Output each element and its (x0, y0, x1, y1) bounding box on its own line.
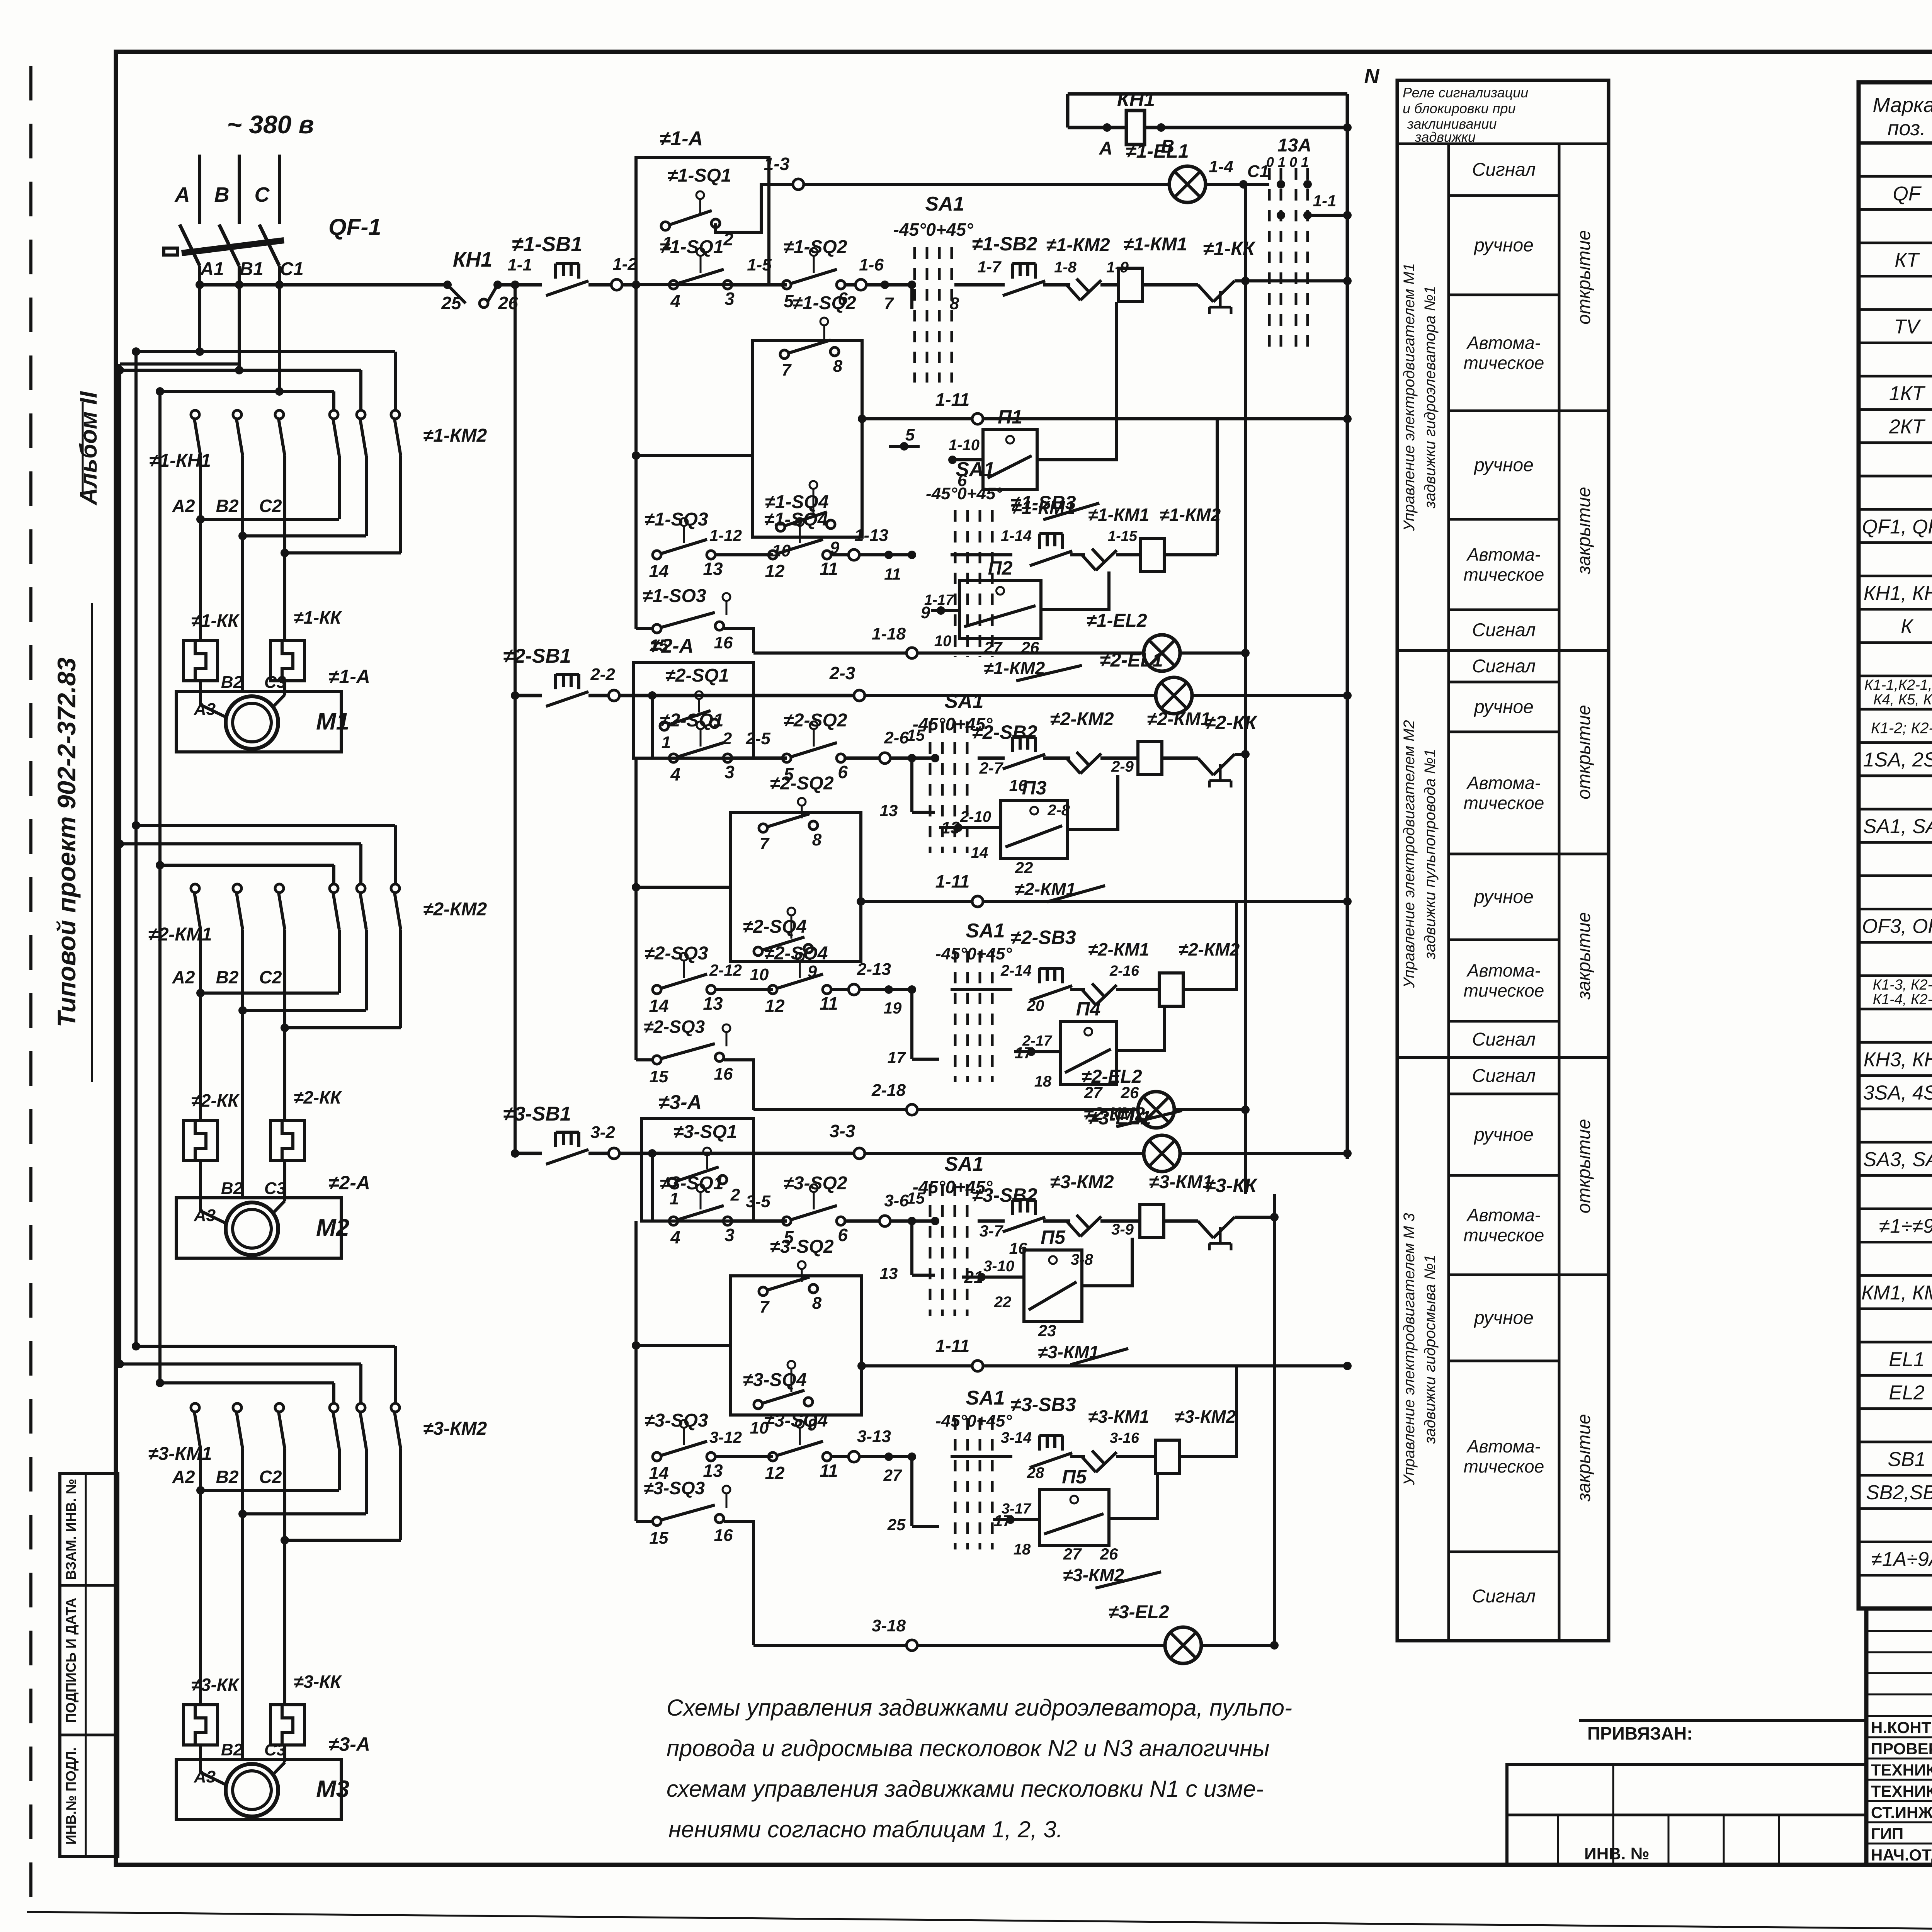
svg-text:10: 10 (750, 965, 769, 984)
svg-text:К: К (1901, 616, 1914, 638)
svg-text:ГИП: ГИП (1871, 1825, 1903, 1843)
svg-text:8: 8 (950, 294, 959, 313)
svg-text:≠2-SQ4: ≠2-SQ4 (764, 943, 828, 964)
svg-text:2-10: 2-10 (960, 808, 991, 825)
svg-text:Сигнал: Сигнал (1472, 160, 1536, 180)
svg-text:-45°0+45°: -45°0+45° (935, 1412, 1012, 1430)
svg-text:ОF3, ОF4: ОF3, ОF4 (1862, 915, 1932, 938)
svg-text:М1: М1 (316, 708, 349, 735)
svg-text:1-4: 1-4 (1209, 157, 1233, 176)
svg-text:≠1-SQ1: ≠1-SQ1 (667, 165, 731, 186)
svg-text:≠2-SQ3: ≠2-SQ3 (644, 1017, 705, 1037)
svg-text:≠3-SQ1: ≠3-SQ1 (660, 1173, 723, 1194)
svg-text:≠1-КК: ≠1-КК (1203, 238, 1256, 259)
svg-text:SВ1: SВ1 (1888, 1448, 1925, 1471)
svg-text:А1: А1 (200, 259, 224, 279)
svg-text:ПОДПИСЬ И ДАТА: ПОДПИСЬ И ДАТА (63, 1598, 79, 1723)
svg-text:8: 8 (833, 357, 843, 376)
svg-text:27: 27 (883, 1466, 902, 1484)
svg-text:П2: П2 (988, 557, 1013, 579)
svg-text:≠2-SQ2: ≠2-SQ2 (770, 773, 833, 794)
svg-text:К1-3, К2-3: К1-3, К2-3 (1873, 977, 1932, 993)
svg-text:ЕL1: ЕL1 (1889, 1348, 1925, 1371)
svg-text:≠3-КМ2: ≠3-КМ2 (1175, 1406, 1236, 1427)
svg-text:1-7: 1-7 (978, 258, 1002, 276)
svg-text:ПРИВЯЗАН:: ПРИВЯЗАН: (1587, 1723, 1693, 1743)
svg-text:ЕL2: ЕL2 (1889, 1381, 1925, 1404)
svg-text:Управление электродвигателем: Управление электродвигателем М 3 (1401, 1213, 1418, 1485)
svg-text:22: 22 (994, 1294, 1012, 1311)
svg-text:3-14: 3-14 (1001, 1429, 1032, 1446)
svg-text:В2: В2 (221, 1740, 243, 1759)
svg-text:задвижки гидроэлеватора: задвижки гидроэлеватора №1 (1422, 286, 1439, 509)
svg-text:Сигнал: Сигнал (1472, 1029, 1536, 1050)
svg-text:≠1-SB1: ≠1-SB1 (512, 233, 583, 256)
svg-text:П1: П1 (998, 406, 1022, 428)
svg-text:≠2-КМ1: ≠2-КМ1 (148, 924, 212, 945)
svg-text:12: 12 (765, 996, 785, 1016)
svg-text:П3: П3 (1022, 777, 1047, 799)
svg-text:3-16: 3-16 (1110, 1430, 1139, 1446)
svg-text:С: С (255, 183, 270, 206)
svg-text:SА1: SА1 (956, 458, 995, 481)
svg-text:≠2-КК: ≠2-КК (1205, 712, 1258, 733)
svg-text:М2: М2 (316, 1214, 349, 1241)
svg-text:16: 16 (714, 633, 733, 652)
svg-text:С3: С3 (264, 1740, 286, 1759)
svg-text:≠2-SQ1: ≠2-SQ1 (665, 665, 729, 686)
svg-text:10: 10 (934, 633, 952, 650)
svg-text:7: 7 (884, 294, 895, 313)
svg-text:СТ.ИНЖ.: СТ.ИНЖ. (1871, 1803, 1932, 1821)
svg-text:А3: А3 (194, 1206, 216, 1225)
svg-text:≠1-КК: ≠1-КК (191, 611, 240, 631)
svg-text:открытие: открытие (1574, 230, 1594, 325)
svg-text:ручное: ручное (1473, 235, 1534, 256)
svg-text:Сигнал: Сигнал (1472, 620, 1536, 641)
svg-text:В1: В1 (240, 259, 263, 279)
svg-text:открытие: открытие (1574, 1119, 1594, 1214)
svg-text:1-14: 1-14 (1001, 527, 1032, 544)
svg-text:QF1, QF2: QF1, QF2 (1862, 515, 1932, 538)
svg-text:М3: М3 (316, 1776, 349, 1803)
svg-text:С2: С2 (259, 1467, 282, 1487)
svg-text:26: 26 (1100, 1545, 1118, 1563)
svg-text:1-3: 1-3 (764, 154, 790, 174)
svg-text:11: 11 (820, 559, 838, 579)
svg-text:2-3: 2-3 (829, 663, 855, 683)
svg-text:SА1: SА1 (966, 1387, 1005, 1409)
svg-text:3-5: 3-5 (746, 1192, 770, 1211)
svg-text:2-12: 2-12 (709, 961, 742, 979)
svg-text:Автома-: Автома- (1466, 1205, 1541, 1225)
svg-text:1-2: 1-2 (612, 255, 637, 274)
svg-text:В: В (214, 183, 230, 206)
svg-text:18: 18 (1034, 1073, 1052, 1090)
svg-text:≠3-КМ2: ≠3-КМ2 (1050, 1172, 1114, 1192)
svg-text:≠2-КК: ≠2-КК (294, 1087, 342, 1107)
svg-text:КТ: КТ (1895, 249, 1920, 272)
svg-text:27: 27 (1063, 1545, 1082, 1563)
svg-text:А3: А3 (194, 1767, 216, 1786)
svg-text:≠2-КМ1: ≠2-КМ1 (1088, 939, 1149, 959)
svg-text:≠3-SQ1: ≠3-SQ1 (673, 1122, 737, 1142)
svg-text:2-13: 2-13 (857, 960, 891, 979)
svg-text:В2: В2 (216, 1467, 239, 1487)
svg-text:N: N (1364, 65, 1380, 88)
svg-text:SА1: SА1 (925, 193, 964, 215)
svg-text:П4: П4 (1076, 998, 1101, 1020)
svg-text:схемам управления задвижка: схемам управления задвижками песколовки … (667, 1776, 1264, 1802)
svg-text:4: 4 (670, 1227, 680, 1247)
svg-text:закрытие: закрытие (1574, 487, 1594, 575)
svg-text:3-6: 3-6 (884, 1191, 909, 1210)
svg-text:28: 28 (1027, 1464, 1044, 1481)
svg-text:≠3-ЕL1: ≠3-ЕL1 (1088, 1107, 1151, 1129)
svg-text:П5: П5 (1062, 1466, 1087, 1488)
svg-text:С3: С3 (264, 1179, 286, 1198)
svg-text:КН1: КН1 (1117, 88, 1155, 111)
svg-text:С2: С2 (259, 496, 282, 516)
svg-text:≠3-SВ3: ≠3-SВ3 (1010, 1394, 1076, 1415)
svg-text:6: 6 (838, 1225, 848, 1245)
svg-text:3-8: 3-8 (1071, 1251, 1094, 1268)
svg-text:13: 13 (703, 993, 723, 1014)
svg-text:Управление электродвигателем: Управление электродвигателем М1 (1401, 263, 1418, 531)
svg-text:≠1А÷9А: ≠1А÷9А (1871, 1548, 1932, 1570)
svg-text:К1-2; К2-2: К1-2; К2-2 (1871, 719, 1932, 736)
svg-text:QF: QF (1893, 182, 1922, 205)
svg-text:13: 13 (880, 1264, 898, 1282)
svg-text:≠1-КМ2: ≠1-КМ2 (423, 425, 487, 446)
svg-text:8: 8 (812, 1294, 822, 1313)
svg-text:16: 16 (714, 1065, 733, 1083)
svg-text:≠2-SВ1: ≠2-SВ1 (503, 645, 571, 667)
svg-text:≠1-ЕL2: ≠1-ЕL2 (1086, 611, 1147, 631)
svg-text:6: 6 (838, 762, 848, 782)
svg-text:2-16: 2-16 (1109, 963, 1139, 979)
svg-text:≠2-SQ1: ≠2-SQ1 (660, 710, 723, 731)
svg-text:≠2-А: ≠2-А (650, 635, 694, 657)
svg-text:закрытие: закрытие (1574, 912, 1594, 1000)
svg-text:тическое: тическое (1464, 1225, 1544, 1245)
svg-text:≠1-КМ1: ≠1-КМ1 (1088, 505, 1149, 525)
svg-text:2-9: 2-9 (1111, 758, 1134, 775)
svg-text:≠2-КМ1: ≠2-КМ1 (1147, 709, 1211, 730)
svg-text:и блокировки при: и блокировки при (1403, 100, 1516, 116)
svg-text:1: 1 (662, 733, 671, 752)
svg-text:12: 12 (765, 561, 785, 581)
svg-text:2-18: 2-18 (871, 1081, 906, 1100)
svg-text:ручное: ручное (1473, 1308, 1534, 1328)
svg-text:≠2-SВ3: ≠2-SВ3 (1010, 927, 1076, 948)
svg-text:≠1-ЕL1: ≠1-ЕL1 (1126, 140, 1189, 162)
svg-text:2-8: 2-8 (1047, 802, 1070, 819)
svg-text:К4, К5, К6: К4, К5, К6 (1873, 692, 1932, 708)
svg-text:В2: В2 (221, 1179, 243, 1198)
svg-text:А2: А2 (172, 496, 195, 516)
svg-text:≠3-SQ3: ≠3-SQ3 (644, 1410, 708, 1431)
svg-text:Схемы управления задвижками: Схемы управления задвижками гидроэлевато… (667, 1695, 1292, 1721)
svg-text:25: 25 (887, 1515, 906, 1534)
svg-text:5: 5 (905, 425, 915, 444)
svg-text:≠3-SQ4: ≠3-SQ4 (764, 1410, 828, 1431)
svg-text:~ 380 в: ~ 380 в (227, 110, 314, 139)
svg-text:SВ2,SВ3: SВ2,SВ3 (1866, 1481, 1932, 1504)
svg-text:≠3-КМ1: ≠3-КМ1 (148, 1444, 212, 1464)
svg-text:Сигнал: Сигнал (1472, 1586, 1536, 1607)
svg-text:0 1 0 1: 0 1 0 1 (1266, 154, 1309, 170)
svg-text:задвижки пульпопровода №1: задвижки пульпопровода №1 (1422, 749, 1439, 960)
svg-text:Н.КОНТР.: Н.КОНТР. (1871, 1718, 1932, 1736)
svg-text:23: 23 (1038, 1321, 1056, 1340)
svg-text:1-15: 1-15 (1108, 528, 1138, 544)
svg-text:КН1: КН1 (453, 248, 492, 271)
svg-text:задвижки гидросмыва №1: задвижки гидросмыва №1 (1422, 1255, 1439, 1444)
svg-text:П5: П5 (1041, 1226, 1066, 1248)
svg-text:Марка,: Марка, (1872, 94, 1932, 117)
svg-text:18: 18 (1014, 1541, 1031, 1558)
svg-text:7: 7 (760, 834, 770, 853)
svg-text:≠1-КМ1: ≠1-КМ1 (1123, 234, 1187, 255)
svg-text:С1: С1 (280, 259, 303, 279)
svg-text:ТV: ТV (1894, 316, 1921, 338)
svg-text:≠1-SQ1: ≠1-SQ1 (660, 237, 723, 257)
svg-text:22: 22 (1015, 859, 1033, 877)
svg-text:≠3-КМ1: ≠3-КМ1 (1149, 1172, 1213, 1192)
svg-text:2-6: 2-6 (884, 728, 909, 747)
svg-text:Автома-: Автома- (1466, 961, 1541, 981)
svg-text:≠1-SВ3: ≠1-SВ3 (1010, 492, 1076, 514)
svg-text:тическое: тическое (1464, 793, 1544, 813)
svg-text:нениями согласно таблицам 1: нениями согласно таблицам 1, 2, 3. (668, 1816, 1063, 1842)
svg-text:ИНВ.№ ПОДЛ.: ИНВ.№ ПОДЛ. (63, 1747, 79, 1845)
svg-text:1-6: 1-6 (859, 255, 884, 274)
svg-text:В2: В2 (216, 967, 239, 987)
svg-text:≠2-SQ3: ≠2-SQ3 (644, 943, 708, 964)
svg-text:4: 4 (670, 764, 680, 784)
svg-text:-45°0+45°: -45°0+45° (926, 484, 1002, 503)
svg-text:Сигнал: Сигнал (1472, 656, 1536, 677)
svg-text:≠2-SQ2: ≠2-SQ2 (783, 710, 847, 731)
svg-text:15: 15 (650, 1067, 668, 1086)
svg-text:11: 11 (884, 565, 901, 583)
svg-text:НАЧ.ОТД: НАЧ.ОТД (1871, 1846, 1932, 1864)
svg-text:13: 13 (880, 801, 898, 820)
svg-text:14: 14 (649, 561, 668, 581)
svg-text:3: 3 (724, 762, 735, 782)
svg-text:SА1, SА2: SА1, SА2 (1863, 815, 1932, 838)
svg-text:≠3-КК: ≠3-КК (294, 1672, 342, 1692)
svg-text:Автома-: Автома- (1466, 333, 1541, 353)
svg-text:≠2-А: ≠2-А (328, 1172, 370, 1194)
svg-text:2: 2 (730, 1185, 740, 1204)
svg-text:1-13: 1-13 (854, 526, 888, 545)
svg-text:≠1-А: ≠1-А (660, 128, 703, 150)
svg-text:≠3-SQ4: ≠3-SQ4 (743, 1370, 806, 1390)
svg-text:-45°0+45°: -45°0+45° (893, 219, 973, 240)
svg-text:≠2-ЕL1: ≠2-ЕL1 (1100, 649, 1163, 671)
svg-text:≠1-SQ2: ≠1-SQ2 (783, 237, 847, 257)
svg-text:≠1-SQ2: ≠1-SQ2 (792, 293, 856, 313)
svg-text:9: 9 (921, 603, 930, 622)
svg-text:3: 3 (724, 289, 735, 309)
svg-text:≠3-SQ2: ≠3-SQ2 (770, 1236, 833, 1257)
svg-text:≠3-ЕL2: ≠3-ЕL2 (1108, 1602, 1169, 1622)
svg-text:-45°0+45°: -45°0+45° (935, 944, 1012, 963)
svg-text:SА1: SА1 (944, 690, 983, 713)
svg-text:≠2-ЕL2: ≠2-ЕL2 (1081, 1066, 1142, 1087)
svg-text:1-18: 1-18 (872, 624, 906, 643)
svg-text:тическое: тическое (1464, 353, 1544, 373)
svg-text:16: 16 (714, 1526, 733, 1545)
svg-text:25: 25 (441, 293, 462, 313)
svg-text:3-2: 3-2 (590, 1123, 615, 1142)
svg-text:1SА, 2SА: 1SА, 2SА (1863, 749, 1932, 771)
svg-text:3-18: 3-18 (872, 1616, 906, 1635)
svg-text:13А: 13А (1277, 135, 1311, 156)
svg-text:открытие: открытие (1574, 705, 1594, 799)
svg-text:1-11: 1-11 (935, 871, 970, 891)
svg-text:тическое: тическое (1464, 1456, 1544, 1476)
svg-text:≠1-КМ2: ≠1-КМ2 (1046, 235, 1110, 255)
svg-text:ручное: ручное (1473, 455, 1534, 476)
svg-text:А3: А3 (194, 700, 216, 719)
svg-text:1-11: 1-11 (935, 1336, 970, 1356)
svg-text:ВЗАМ. ИНВ. №: ВЗАМ. ИНВ. № (63, 1479, 79, 1580)
svg-text:Альбом II: Альбом II (75, 391, 102, 506)
svg-text:7: 7 (760, 1298, 770, 1316)
svg-text:ТЕХНИК: ТЕХНИК (1871, 1761, 1932, 1779)
svg-text:1КТ: 1КТ (1889, 382, 1926, 405)
svg-text:19: 19 (884, 999, 902, 1017)
svg-text:1-11: 1-11 (935, 389, 970, 410)
svg-text:3-9: 3-9 (1111, 1221, 1134, 1238)
svg-text:А2: А2 (172, 967, 195, 987)
svg-text:≠1-SQ3: ≠1-SQ3 (644, 509, 708, 530)
svg-text:Автома-: Автома- (1466, 1436, 1541, 1456)
svg-text:Автома-: Автома- (1466, 773, 1541, 793)
svg-text:SА3, SА4: SА3, SА4 (1863, 1148, 1932, 1171)
svg-text:11: 11 (820, 1461, 838, 1481)
svg-text:≠3-SQ3: ≠3-SQ3 (644, 1478, 705, 1498)
svg-text:≠1-SВ2: ≠1-SВ2 (972, 233, 1037, 255)
svg-text:1-8: 1-8 (1054, 259, 1077, 276)
svg-text:13: 13 (703, 1461, 723, 1481)
svg-text:≠1-А: ≠1-А (328, 666, 370, 687)
svg-text:14: 14 (649, 996, 668, 1016)
svg-text:ручное: ручное (1473, 887, 1534, 907)
svg-text:ИНВ. №: ИНВ. № (1584, 1844, 1650, 1863)
svg-text:≠1-КК: ≠1-КК (294, 607, 342, 628)
svg-text:С3: С3 (264, 673, 286, 692)
svg-text:А: А (174, 183, 190, 206)
svg-text:Управление электродвигателем: Управление электродвигателем М2 (1401, 720, 1418, 988)
svg-text:провода и гидросмыва пескол: провода и гидросмыва песколовок N2 и N3 … (667, 1735, 1269, 1761)
svg-text:А2: А2 (172, 1467, 195, 1487)
svg-text:≠2-SQ4: ≠2-SQ4 (743, 917, 806, 937)
svg-text:ручное: ручное (1473, 1125, 1534, 1145)
svg-text:КН3, КН4: КН3, КН4 (1864, 1048, 1932, 1071)
svg-text:20: 20 (1027, 997, 1044, 1014)
svg-text:2-7: 2-7 (979, 759, 1003, 777)
svg-text:С2: С2 (259, 967, 282, 987)
svg-text:ручное: ручное (1473, 697, 1534, 718)
svg-text:КН1, КН2: КН1, КН2 (1864, 582, 1932, 605)
svg-text:≠3-КК: ≠3-КК (1205, 1175, 1258, 1196)
svg-text:≠2-КК: ≠2-КК (191, 1090, 240, 1111)
svg-text:КМ1, КМ2: КМ1, КМ2 (1861, 1282, 1932, 1304)
svg-text:1-5: 1-5 (747, 255, 772, 274)
svg-text:11: 11 (820, 993, 838, 1014)
svg-text:3-7: 3-7 (980, 1222, 1003, 1240)
svg-text:SА1: SА1 (966, 920, 1005, 942)
svg-text:≠2-КМ2: ≠2-КМ2 (1179, 939, 1240, 959)
svg-text:А: А (1099, 138, 1113, 159)
svg-text:≠3-SQ2: ≠3-SQ2 (783, 1173, 847, 1194)
svg-text:3SА, 4SА: 3SА, 4SА (1863, 1082, 1932, 1104)
svg-text:7: 7 (782, 361, 792, 379)
svg-text:1-1: 1-1 (507, 255, 532, 274)
svg-text:2-14: 2-14 (1000, 962, 1032, 979)
svg-text:3: 3 (724, 1225, 735, 1245)
svg-text:QF-1: QF-1 (328, 214, 381, 240)
svg-text:В2: В2 (221, 673, 243, 692)
svg-text:ПРОВЕР.: ПРОВЕР. (1871, 1740, 1932, 1758)
svg-text:1-12: 1-12 (709, 526, 742, 544)
svg-text:В2: В2 (216, 496, 239, 516)
svg-text:8: 8 (812, 830, 822, 849)
svg-text:ТЕХНИК: ТЕХНИК (1871, 1782, 1932, 1800)
svg-text:4: 4 (670, 291, 680, 311)
svg-text:13: 13 (703, 559, 723, 579)
svg-text:2: 2 (722, 729, 732, 748)
svg-text:закрытие: закрытие (1574, 1414, 1594, 1502)
svg-text:≠1-КМ2: ≠1-КМ2 (1160, 505, 1221, 525)
svg-text:2КТ: 2КТ (1889, 416, 1926, 438)
svg-text:С1: С1 (1247, 162, 1269, 181)
svg-text:≠3-А: ≠3-А (658, 1091, 702, 1114)
svg-text:1-10: 1-10 (949, 437, 980, 454)
svg-text:≠2-КМ2: ≠2-КМ2 (423, 899, 487, 920)
svg-text:3-13: 3-13 (857, 1427, 891, 1446)
svg-text:тическое: тическое (1464, 565, 1544, 585)
svg-text:3-10: 3-10 (983, 1258, 1014, 1275)
svg-text:2-5: 2-5 (745, 729, 770, 748)
svg-text:К1-1,К2-1,К3: К1-1,К2-1,К3 (1864, 677, 1932, 693)
svg-text:1-1: 1-1 (1313, 192, 1337, 210)
svg-text:≠3-КК: ≠3-КК (191, 1675, 240, 1695)
svg-text:≠3-КМ1: ≠3-КМ1 (1088, 1406, 1149, 1427)
svg-text:Типовой проект 902-2-372.83: Типовой проект 902-2-372.83 (52, 658, 81, 1027)
svg-text:К1-4, К2-4: К1-4, К2-4 (1873, 992, 1932, 1008)
svg-text:SА1: SА1 (944, 1153, 983, 1175)
svg-text:≠3-КМ2: ≠3-КМ2 (423, 1418, 487, 1439)
svg-text:Автома-: Автома- (1466, 544, 1541, 565)
svg-text:12: 12 (765, 1463, 785, 1483)
svg-text:15: 15 (650, 1529, 668, 1548)
svg-text:3-3: 3-3 (830, 1121, 855, 1141)
svg-text:≠3-SВ1: ≠3-SВ1 (503, 1103, 571, 1125)
svg-text:поз.: поз. (1888, 117, 1926, 140)
svg-text:тическое: тическое (1464, 981, 1544, 1001)
svg-text:Реле сигнализации: Реле сигнализации (1403, 85, 1528, 100)
svg-text:≠3-А: ≠3-А (328, 1733, 370, 1755)
svg-text:≠2-КМ2: ≠2-КМ2 (1050, 709, 1114, 730)
svg-text:14: 14 (971, 844, 988, 861)
svg-text:≠1÷≠9: ≠1÷≠9 (1879, 1215, 1932, 1237)
svg-text:Сигнал: Сигнал (1472, 1066, 1536, 1086)
